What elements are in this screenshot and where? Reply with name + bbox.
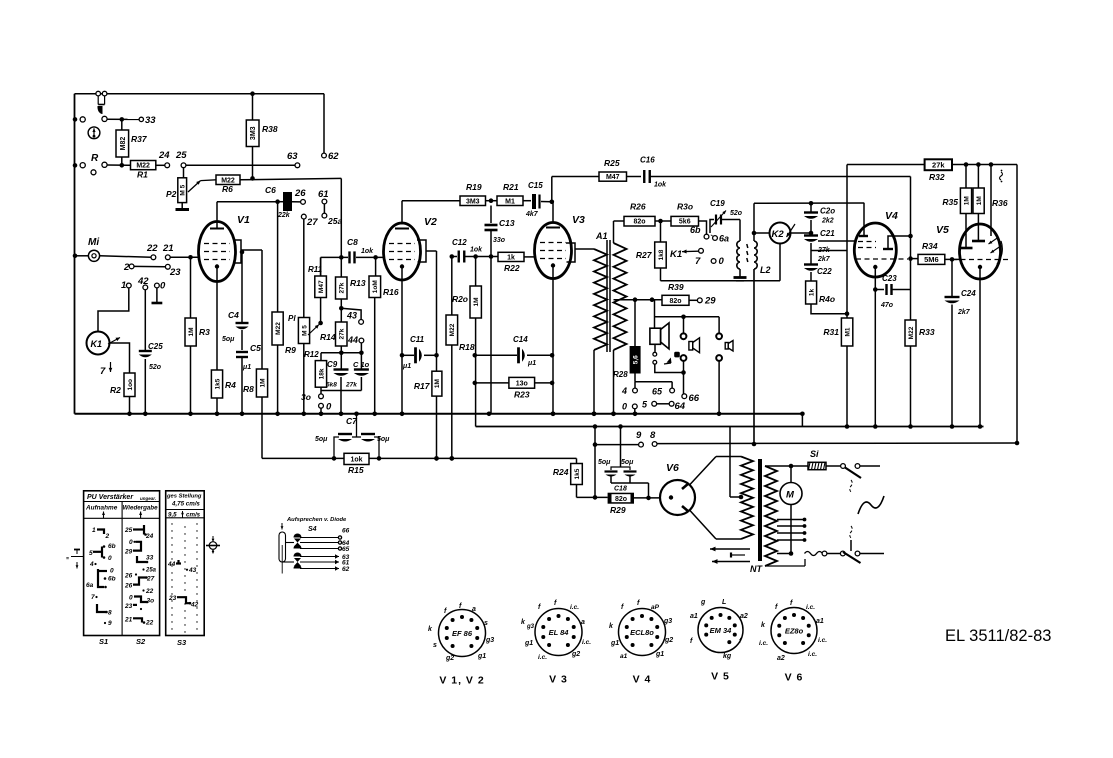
tube V1 — [199, 202, 251, 282]
svg-text:7: 7 — [695, 256, 701, 267]
resistor R22 — [498, 252, 535, 273]
svg-text:8: 8 — [650, 430, 656, 441]
svg-text:a2: a2 — [777, 655, 785, 662]
svg-text:13o: 13o — [516, 380, 528, 387]
terminal 62 — [322, 94, 340, 162]
svg-text:R31: R31 — [823, 327, 839, 337]
svg-text:C22: C22 — [817, 267, 832, 276]
svg-text:33: 33 — [146, 555, 154, 562]
svg-text:0: 0 — [110, 568, 114, 575]
svg-text:μ1: μ1 — [402, 363, 411, 370]
node 25 to 63 — [175, 150, 300, 168]
svg-text:g1: g1 — [655, 651, 664, 658]
svg-text:K1: K1 — [670, 249, 682, 260]
svg-text:C8: C8 — [347, 237, 358, 247]
resistor R18 — [446, 257, 475, 461]
svg-text:66: 66 — [689, 393, 700, 404]
svg-text:21: 21 — [162, 243, 174, 254]
svg-text:ungear.: ungear. — [140, 496, 156, 501]
svg-text:33o: 33o — [493, 237, 506, 244]
svg-text:23: 23 — [168, 595, 177, 602]
svg-text:R32: R32 — [929, 172, 945, 182]
wire V4 anode — [908, 234, 913, 261]
resistor R6 — [216, 175, 341, 194]
svg-text:C15: C15 — [528, 181, 543, 190]
wire L2 top rail — [754, 201, 864, 241]
svg-text:a1: a1 — [816, 618, 824, 625]
svg-text:C21: C21 — [820, 229, 835, 238]
resistor R28 — [613, 300, 641, 379]
svg-text:C9: C9 — [327, 360, 338, 369]
resistor R34 — [918, 241, 960, 264]
svg-text:P2: P2 — [166, 189, 177, 199]
resistor R4 — [211, 268, 236, 416]
svg-text:i.c.: i.c. — [808, 651, 817, 658]
svg-text:0: 0 — [108, 555, 112, 562]
svg-text:C16: C16 — [640, 156, 655, 165]
svg-text:26: 26 — [124, 573, 133, 580]
svg-text:18k: 18k — [318, 368, 325, 379]
resistor R32 — [925, 159, 1017, 182]
svg-text:R8: R8 — [243, 384, 254, 394]
svg-text:R36: R36 — [992, 198, 1008, 208]
svg-text:27k: 27k — [345, 382, 357, 389]
svg-text:M22: M22 — [275, 322, 282, 335]
svg-text:44: 44 — [347, 335, 358, 345]
svg-text:0: 0 — [326, 402, 332, 413]
contacts 0 5 64 — [622, 400, 686, 414]
wire junction to R25 — [552, 177, 599, 202]
capacitor C7 — [315, 412, 390, 461]
svg-text:6b: 6b — [108, 576, 116, 583]
capacitor C19 — [710, 199, 743, 233]
wire V2 side tab — [426, 251, 437, 355]
socket V1 V2 EF86 — [428, 603, 494, 687]
resistor R40 — [806, 281, 850, 316]
svg-text:g1: g1 — [610, 640, 619, 647]
plug symbol small — [664, 352, 680, 364]
switch diagram S4 — [279, 517, 350, 574]
svg-text:C25: C25 — [148, 342, 163, 351]
capacitor C22 — [804, 265, 832, 282]
capacitor C12 — [450, 238, 499, 263]
svg-text:5oμ: 5oμ — [621, 459, 634, 466]
resistor R20 — [452, 257, 481, 427]
svg-text:a1: a1 — [620, 653, 628, 660]
svg-text:R29: R29 — [610, 505, 626, 515]
resistor R37 — [116, 119, 148, 165]
svg-text:22: 22 — [145, 620, 154, 627]
svg-text:C12: C12 — [452, 238, 467, 247]
jack rail — [655, 315, 720, 334]
svg-text:62: 62 — [328, 151, 339, 162]
svg-text:R6: R6 — [222, 184, 233, 194]
resistor R8 — [243, 369, 268, 458]
svg-text:1ok: 1ok — [350, 456, 362, 463]
svg-text:1ok: 1ok — [654, 182, 667, 189]
wire cathode bypass line — [262, 456, 344, 461]
svg-text:V6: V6 — [666, 462, 679, 474]
tube V5 — [936, 224, 1008, 279]
svg-text:5k6: 5k6 — [679, 219, 691, 226]
ground below P2 — [176, 203, 190, 210]
svg-text:52o: 52o — [730, 210, 743, 217]
svg-text:PU Verstärker: PU Verstärker — [87, 494, 134, 501]
svg-text:i.c.: i.c. — [582, 639, 591, 646]
svg-text:R13: R13 — [350, 278, 366, 288]
svg-text:S4: S4 — [308, 526, 317, 533]
terminals 61 25a — [318, 189, 342, 226]
jack circles right — [716, 333, 733, 413]
contact 27 — [301, 214, 318, 317]
svg-text:EL 84: EL 84 — [549, 628, 570, 637]
svg-text:52o: 52o — [149, 364, 162, 371]
svg-text:g3: g3 — [663, 618, 672, 625]
svg-text:1oM: 1oM — [372, 280, 379, 293]
svg-text:1M: 1M — [188, 327, 195, 336]
tube V4 — [854, 203, 911, 277]
wire top bus — [75, 93, 325, 95]
svg-text:V4: V4 — [885, 210, 898, 222]
svg-text:7: 7 — [100, 366, 106, 377]
svg-text:R37: R37 — [131, 134, 148, 144]
arrow 7 down — [100, 362, 112, 377]
svg-text:M 5: M 5 — [180, 184, 187, 195]
svg-text:1M: 1M — [259, 378, 266, 387]
svg-text:1k5: 1k5 — [574, 468, 581, 479]
svg-text:L: L — [722, 599, 726, 606]
svg-text:C13: C13 — [499, 218, 515, 228]
svg-text:5: 5 — [89, 550, 93, 557]
svg-text:Pl: Pl — [288, 314, 296, 323]
resistor R14 — [320, 322, 364, 355]
svg-text:R21: R21 — [503, 182, 519, 192]
capacitors 2x50u C18 — [598, 427, 649, 498]
svg-text:g3: g3 — [526, 624, 535, 630]
symbol right of tables — [206, 536, 220, 554]
resistor R19 — [460, 182, 497, 206]
motor M — [780, 464, 802, 556]
svg-text:25a: 25a — [327, 216, 342, 226]
svg-text:s: s — [433, 642, 437, 649]
svg-text:Aufsprechen v. Diode: Aufsprechen v. Diode — [286, 517, 347, 523]
wire K2 to V4 grid — [811, 241, 857, 251]
svg-text:M47: M47 — [606, 174, 620, 181]
capacitor C10 — [345, 353, 370, 391]
svg-text:65: 65 — [342, 546, 350, 553]
svg-text:s: s — [484, 620, 488, 627]
svg-text:5oμ: 5oμ — [598, 459, 611, 466]
wire C10 bottom to bus — [0, 0, 1, 1]
svg-text:22: 22 — [146, 243, 158, 254]
svg-text:5oμ: 5oμ — [315, 436, 328, 443]
svg-text:R18: R18 — [459, 342, 475, 352]
resistor R3 — [185, 257, 210, 416]
svg-text:R12: R12 — [304, 350, 319, 359]
svg-text:C6: C6 — [265, 185, 276, 195]
capacitor C21 — [804, 229, 835, 264]
svg-text:R14: R14 — [320, 332, 336, 342]
svg-text:1M: 1M — [976, 196, 983, 205]
svg-text:C11: C11 — [410, 335, 425, 344]
resistor R26 — [624, 202, 671, 227]
svg-text:S1: S1 — [99, 637, 108, 646]
svg-text:S3: S3 — [177, 638, 187, 647]
resistor R13 — [336, 257, 366, 322]
svg-text:1ok: 1ok — [361, 248, 374, 255]
svg-text:C23: C23 — [882, 274, 897, 283]
svg-text:M: M — [786, 490, 795, 501]
svg-text:5,6: 5,6 — [632, 355, 639, 364]
microphone jack Mi — [73, 237, 151, 261]
svg-text:i.c.: i.c. — [570, 604, 579, 611]
svg-text:0: 0 — [160, 281, 166, 292]
svg-text:C19: C19 — [710, 199, 725, 208]
wire drop to 9 — [594, 427, 596, 498]
fuse Si line — [765, 449, 840, 470]
svg-text:R33: R33 — [919, 327, 935, 337]
svg-text:25: 25 — [175, 150, 187, 161]
resistor R27 — [636, 221, 666, 281]
relay K1 left — [87, 288, 130, 373]
transformer NT secondary — [765, 466, 777, 566]
svg-text:M22: M22 — [908, 326, 915, 339]
svg-text:R25: R25 — [604, 158, 620, 168]
meter symbol — [88, 127, 100, 139]
capacitor C5 — [236, 343, 261, 416]
svg-text:2k2: 2k2 — [821, 218, 834, 225]
svg-text:ges Stellung: ges Stellung — [166, 494, 202, 500]
resistor R16 — [369, 257, 399, 416]
svg-text:R38: R38 — [262, 124, 278, 134]
switch top right — [841, 464, 880, 492]
svg-text:0: 0 — [622, 402, 627, 412]
capacitor C14 — [473, 335, 555, 367]
inductor L2 — [734, 220, 771, 281]
wire V3 anode to A1 — [575, 248, 594, 250]
svg-text:42: 42 — [190, 602, 199, 609]
svg-text:g: g — [700, 599, 706, 606]
symbol left of tables — [66, 550, 83, 569]
svg-text:Mi: Mi — [88, 237, 99, 248]
switch table S1 S2 — [84, 491, 160, 646]
svg-text:R3: R3 — [199, 327, 210, 337]
svg-text:1: 1 — [92, 527, 96, 534]
svg-text:R15: R15 — [348, 465, 364, 475]
wire right rail — [1015, 165, 1020, 446]
svg-text:R3o: R3o — [677, 202, 693, 212]
speed table S3 — [166, 491, 205, 647]
svg-text:0: 0 — [719, 256, 725, 267]
wire secondary bottom — [765, 559, 805, 566]
capacitor C13 — [485, 206, 515, 414]
resistor R36 second 1M — [972, 165, 1008, 242]
svg-text:V 6: V 6 — [785, 672, 804, 684]
capacitor C24 — [945, 259, 977, 428]
resistor R1 — [131, 150, 171, 180]
wire V4 to R34 — [911, 258, 919, 260]
svg-text:27k: 27k — [339, 328, 346, 339]
svg-text:26: 26 — [124, 583, 133, 590]
wire V1 top to C6 — [217, 199, 280, 204]
svg-text:R26: R26 — [630, 202, 646, 212]
svg-text:1oo: 1oo — [127, 379, 134, 391]
svg-text:M1: M1 — [844, 327, 851, 336]
socket V3 EL84 — [521, 600, 591, 686]
svg-text:C18: C18 — [614, 486, 627, 493]
svg-text:g2: g2 — [664, 637, 673, 644]
svg-text:82o: 82o — [615, 496, 627, 503]
svg-text:R2: R2 — [110, 385, 121, 395]
svg-text:1ok: 1ok — [470, 247, 483, 254]
resistor R21 — [497, 182, 531, 206]
transformer A1 — [592, 221, 627, 416]
svg-text:3M3: 3M3 — [250, 126, 257, 140]
svg-text:44: 44 — [167, 561, 176, 568]
svg-text:K2: K2 — [772, 229, 785, 240]
wire R27 to K2 — [661, 280, 781, 282]
svg-text:47o: 47o — [880, 302, 894, 309]
wire V4 cathode — [873, 269, 878, 429]
svg-text:4: 4 — [621, 386, 627, 396]
capacitor C15 — [525, 181, 554, 218]
svg-text:M1: M1 — [505, 198, 515, 205]
svg-text:ECL8o: ECL8o — [630, 628, 654, 637]
svg-text:V 5: V 5 — [711, 671, 730, 683]
svg-text:V1: V1 — [237, 214, 250, 226]
svg-text:R17: R17 — [414, 381, 431, 391]
svg-text:R4o: R4o — [819, 294, 835, 304]
svg-text:61: 61 — [318, 189, 329, 200]
svg-text:1M: 1M — [963, 196, 970, 205]
NT label — [750, 564, 763, 574]
svg-text:R39: R39 — [668, 282, 684, 292]
tube V3 — [535, 202, 586, 279]
resistor R31 — [823, 165, 852, 429]
svg-text:2k7: 2k7 — [817, 256, 831, 263]
svg-text:aP: aP — [651, 604, 660, 611]
svg-text:9: 9 — [108, 620, 112, 627]
wire V3 cathode — [551, 268, 556, 417]
svg-text:V2: V2 — [424, 216, 437, 228]
svg-text:2k7: 2k7 — [957, 309, 971, 316]
svg-text:g2: g2 — [571, 651, 580, 658]
svg-text:g3: g3 — [485, 637, 494, 644]
wire top right bus — [847, 164, 925, 166]
loudspeaker LS1 — [650, 300, 684, 373]
wire V1 anode — [241, 250, 262, 369]
svg-text:EL 3511/82-83: EL 3511/82-83 — [945, 627, 1051, 645]
svg-text:1k5: 1k5 — [214, 378, 221, 389]
svg-text:a2: a2 — [740, 613, 748, 620]
svg-text:V 4: V 4 — [633, 674, 652, 686]
svg-text:M47: M47 — [318, 280, 325, 293]
svg-text:7: 7 — [91, 594, 95, 601]
svg-text:82o: 82o — [669, 298, 681, 305]
resistor R24 — [553, 458, 608, 499]
svg-text:4k7: 4k7 — [525, 211, 539, 218]
svg-text:27k: 27k — [932, 160, 945, 169]
svg-text:R2o: R2o — [452, 294, 468, 304]
svg-text:V 3: V 3 — [549, 674, 568, 686]
svg-text:1M: 1M — [473, 297, 480, 306]
svg-text:R34: R34 — [922, 241, 938, 251]
svg-text:22: 22 — [145, 588, 154, 595]
capacitor C25 — [139, 290, 163, 416]
svg-text:3M3: 3M3 — [466, 198, 480, 205]
svg-text:NT: NT — [750, 564, 763, 574]
wire V2 anode top — [402, 200, 460, 202]
svg-text:24: 24 — [158, 150, 170, 161]
svg-text:i.c.: i.c. — [818, 637, 827, 644]
svg-text:EF 86: EF 86 — [452, 629, 473, 638]
wire V5 cathode — [978, 269, 983, 429]
svg-text:21: 21 — [124, 616, 133, 623]
svg-text:A1: A1 — [595, 231, 608, 241]
svg-text:6a: 6a — [86, 582, 94, 589]
jack J1 top with plug — [96, 91, 107, 114]
svg-text:6k8: 6k8 — [326, 382, 337, 389]
svg-text:μ1: μ1 — [242, 364, 251, 371]
switch bottom right — [805, 526, 885, 563]
svg-text:R9: R9 — [285, 345, 296, 355]
wire to C8 node — [340, 178, 342, 257]
jack circles left — [681, 333, 700, 394]
svg-text:g2: g2 — [445, 655, 454, 662]
svg-text:1k8: 1k8 — [658, 249, 665, 260]
resistor R25 — [599, 158, 641, 181]
ground stub contact 0 — [152, 288, 163, 303]
svg-text:8: 8 — [108, 610, 112, 617]
resistor R17 — [414, 355, 442, 460]
svg-text:C24: C24 — [961, 289, 976, 298]
svg-text:0: 0 — [129, 539, 133, 546]
capacitor C20 — [804, 203, 835, 233]
potentiometer P1 — [288, 314, 319, 416]
capacitor C11 — [400, 335, 439, 370]
svg-text:43: 43 — [188, 567, 197, 574]
socket V4 ECL80 — [609, 600, 673, 686]
svg-text:C2o: C2o — [820, 207, 835, 216]
wire NT primary tap — [730, 427, 741, 498]
rectifier V6 — [660, 462, 695, 515]
contacts 3o 0 — [301, 391, 332, 417]
svg-text:K1: K1 — [91, 339, 103, 349]
squiggle mark — [1000, 170, 1003, 183]
transformer NT primary — [739, 457, 753, 540]
capacitor C16 — [640, 156, 911, 189]
potentiometer P2 — [166, 168, 216, 203]
svg-text:23: 23 — [169, 267, 181, 278]
contact 6a — [711, 234, 729, 244]
svg-text:Si: Si — [810, 449, 819, 459]
wire V1 grid entry — [170, 256, 199, 258]
svg-text:66: 66 — [342, 528, 350, 535]
svg-text:R: R — [91, 153, 99, 164]
wire L2 heavy vertical — [752, 269, 757, 446]
resistor R38 — [246, 91, 278, 178]
resistor R23 — [473, 377, 555, 399]
svg-text:a1: a1 — [690, 613, 698, 620]
contacts 43 44 — [339, 306, 364, 352]
socket V6 EZ80 — [759, 600, 827, 684]
svg-text:1k: 1k — [808, 289, 815, 297]
bus second — [476, 424, 984, 429]
contacts 1 42 0 — [121, 276, 166, 292]
svg-text:R16: R16 — [383, 287, 399, 297]
node R jacks — [73, 153, 131, 175]
svg-text:4,75 cm/s: 4,75 cm/s — [171, 501, 200, 508]
